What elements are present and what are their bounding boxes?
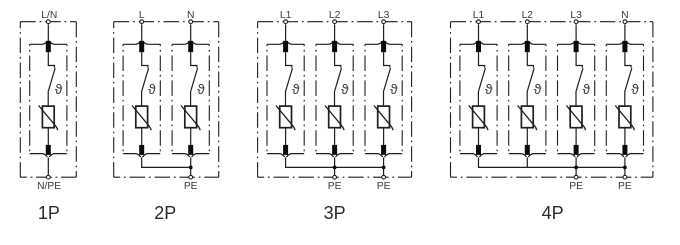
wire + thermal disconnector switch, pole L1: [286, 52, 293, 106]
terminal L1: [477, 20, 481, 24]
wire: bottom contact to PE terminal, pole N: [624, 157, 626, 177]
svg-text:L3: L3: [378, 10, 390, 21]
svg-text:1P: 1P: [38, 203, 60, 223]
bottom contact blade (black), pole N: [622, 145, 627, 155]
top contact blade (black), pole L1: [476, 41, 481, 52]
wire: varistor to bottom contact, pole N: [624, 128, 626, 146]
varistor body, pole L: [136, 106, 148, 128]
top plug-in contact jaws, pole L1: [267, 41, 304, 44]
SPD device outer enclosure box: [114, 22, 219, 178]
module box left side, pole L3: [557, 44, 559, 153]
bottom contact blade (black), pole L: [139, 145, 144, 155]
terminal PE (3P left): [333, 175, 337, 179]
wire + thermal disconnector switch, pole L2: [335, 52, 342, 106]
varistor body, pole L1: [280, 106, 292, 128]
svg-text:ϑ: ϑ: [197, 81, 205, 97]
junction node at pole L3: [382, 166, 386, 170]
wire: varistor to bottom contact, pole L/N: [47, 128, 49, 146]
junction node at pole N: [623, 166, 627, 170]
bottom contact blade (black), pole L/N: [46, 145, 51, 155]
SPD device outer enclosure box: [258, 22, 412, 178]
wire: bottom contact to PE terminal, pole L3: [383, 157, 385, 177]
wire: top terminal to plug contact, pole L2: [334, 24, 336, 41]
top contact blade (black), pole L2: [525, 41, 530, 52]
svg-text:ϑ: ϑ: [341, 81, 349, 97]
junction node at pole N: [189, 166, 193, 170]
svg-text:L3: L3: [570, 10, 582, 21]
terminal N/PE: [46, 175, 50, 179]
wire + thermal disconnector switch, pole L3: [384, 52, 391, 106]
varistor body, pole L3: [378, 106, 390, 128]
svg-text:2P: 2P: [154, 203, 176, 223]
svg-text:L1: L1: [280, 10, 292, 21]
wire: bottom contact down to PE bus, pole L1: [285, 157, 287, 167]
top contact blade (black), pole L: [139, 41, 144, 52]
varistor diagonal stroke, pole L1: [469, 106, 488, 131]
svg-text:L/N: L/N: [41, 10, 57, 21]
varistor diagonal stroke, pole L2: [518, 106, 537, 131]
terminal L2: [333, 20, 337, 24]
top contact blade (black), pole L/N: [46, 41, 51, 52]
PE bus wire: [285, 166, 384, 168]
wire: top terminal to plug contact, pole L/N: [47, 24, 49, 41]
svg-text:4P: 4P: [542, 203, 564, 223]
svg-text:L: L: [139, 10, 145, 21]
varistor diagonal stroke, pole N: [181, 106, 200, 131]
wire + thermal disconnector switch, pole L2: [527, 52, 534, 106]
bottom plug-in contact jaws, pole L1: [267, 154, 304, 157]
wire: varistor to bottom contact, pole L3: [383, 128, 385, 146]
wire: bottom contact down to PE bus, pole L2: [526, 157, 528, 167]
bottom plug-in contact jaws, pole L/N: [30, 154, 67, 157]
svg-text:ϑ: ϑ: [631, 81, 639, 97]
varistor body, pole N: [185, 106, 197, 128]
wire: top terminal to plug contact, pole L1: [478, 24, 480, 41]
bottom contact blade (black), pole N: [188, 145, 193, 155]
module box left side, pole L3: [364, 44, 366, 153]
module box left side, pole L1: [266, 44, 268, 153]
bottom contact blade (black), pole L1: [283, 145, 288, 155]
bottom contact blade (black), pole L2: [332, 145, 337, 155]
varistor diagonal stroke, pole L1: [276, 106, 295, 131]
module box left side, pole L2: [315, 44, 317, 153]
terminal N: [623, 20, 627, 24]
module box right side, pole L2: [352, 44, 354, 153]
wire + thermal disconnector switch, pole N: [625, 52, 632, 106]
top contact blade (black), pole N: [622, 41, 627, 52]
PE bus wire: [478, 166, 625, 168]
bottom plug-in contact jaws, pole L1: [460, 154, 497, 157]
svg-text:PE: PE: [618, 181, 632, 192]
top plug-in contact jaws, pole L3: [558, 41, 595, 44]
svg-text:ϑ: ϑ: [534, 81, 542, 97]
top plug-in contact jaws, pole L3: [365, 41, 402, 44]
junction node at pole L3: [574, 166, 578, 170]
module box right side, pole L3: [401, 44, 403, 153]
module box right side, pole L/N: [66, 44, 68, 153]
bottom contact blade (black), pole L2: [525, 145, 530, 155]
terminal PE (3P right): [382, 175, 386, 179]
wire: bottom contact down to PE bus, pole L: [141, 157, 143, 167]
svg-text:ϑ: ϑ: [485, 81, 493, 97]
terminal PE (4P left): [574, 175, 578, 179]
SPD device outer enclosure box: [20, 22, 76, 178]
wire: bottom contact to PE terminal, pole L/N: [47, 157, 49, 177]
wire + thermal disconnector switch, pole L/N: [48, 52, 55, 106]
module box right side, pole L1: [303, 44, 305, 153]
varistor body, pole L/N: [42, 106, 54, 128]
wire: bottom contact down to PE bus, pole L1: [478, 157, 480, 167]
terminal PE (2P): [189, 175, 193, 179]
module box right side, pole L3: [594, 44, 596, 153]
bottom plug-in contact jaws, pole L2: [509, 154, 546, 157]
junction node at pole L2: [333, 166, 337, 170]
top contact blade (black), pole L3: [574, 41, 579, 52]
bottom plug-in contact jaws, pole N: [606, 154, 643, 157]
wire: bottom contact to PE terminal, pole L2: [334, 157, 336, 177]
svg-text:N/PE: N/PE: [37, 181, 61, 192]
svg-text:N: N: [187, 10, 194, 21]
terminal N: [189, 20, 193, 24]
module box right side, pole N: [208, 44, 210, 153]
top plug-in contact jaws, pole L: [123, 41, 160, 44]
svg-text:L2: L2: [522, 10, 534, 21]
varistor body, pole L2: [521, 106, 533, 128]
top contact blade (black), pole N: [188, 41, 193, 52]
svg-text:PE: PE: [569, 181, 583, 192]
svg-text:N: N: [621, 10, 628, 21]
top contact blade (black), pole L2: [332, 41, 337, 52]
top plug-in contact jaws, pole N: [172, 41, 209, 44]
svg-text:3P: 3P: [324, 203, 346, 223]
svg-text:PE: PE: [377, 181, 391, 192]
module box left side, pole N: [605, 44, 607, 153]
wire: top terminal to plug contact, pole L2: [526, 24, 528, 41]
module box left side, pole L1: [459, 44, 461, 153]
varistor body, pole L1: [473, 106, 485, 128]
top plug-in contact jaws, pole N: [606, 41, 643, 44]
top plug-in contact jaws, pole L1: [460, 41, 497, 44]
varistor body, pole N: [619, 106, 631, 128]
wire: top terminal to plug contact, pole N: [190, 24, 192, 41]
top plug-in contact jaws, pole L2: [316, 41, 353, 44]
wire: top terminal to plug contact, pole L3: [575, 24, 577, 41]
terminal L3: [574, 20, 578, 24]
bottom contact blade (black), pole L3: [574, 145, 579, 155]
bottom plug-in contact jaws, pole L: [123, 154, 160, 157]
module box right side, pole L: [159, 44, 161, 153]
svg-text:ϑ: ϑ: [55, 81, 63, 97]
wire: top terminal to plug contact, pole N: [624, 24, 626, 41]
svg-text:ϑ: ϑ: [390, 81, 398, 97]
terminal L1: [284, 20, 288, 24]
svg-text:PE: PE: [184, 181, 198, 192]
svg-text:ϑ: ϑ: [292, 81, 300, 97]
wire: varistor to bottom contact, pole L1: [285, 128, 287, 146]
wire + thermal disconnector switch, pole L: [142, 52, 149, 106]
wire: bottom contact to PE terminal, pole N: [190, 157, 192, 177]
wire: top terminal to plug contact, pole L1: [285, 24, 287, 41]
varistor body, pole L3: [570, 106, 582, 128]
terminal PE (4P right): [623, 175, 627, 179]
varistor diagonal stroke, pole L/N: [39, 106, 58, 131]
bottom plug-in contact jaws, pole N: [172, 154, 209, 157]
top plug-in contact jaws, pole L2: [509, 41, 546, 44]
wire: varistor to bottom contact, pole L3: [575, 128, 577, 146]
varistor diagonal stroke, pole L2: [325, 106, 344, 131]
svg-text:ϑ: ϑ: [583, 81, 591, 97]
module box right side, pole L2: [545, 44, 547, 153]
module box right side, pole N: [643, 44, 645, 153]
varistor diagonal stroke, pole L3: [374, 106, 393, 131]
top contact blade (black), pole L1: [283, 41, 288, 52]
wire: varistor to bottom contact, pole N: [190, 128, 192, 146]
wire: top terminal to plug contact, pole L: [141, 24, 143, 41]
bottom plug-in contact jaws, pole L2: [316, 154, 353, 157]
wire + thermal disconnector switch, pole L1: [478, 52, 485, 106]
module box left side, pole L/N: [29, 44, 31, 153]
bottom contact blade (black), pole L3: [381, 145, 386, 155]
svg-text:ϑ: ϑ: [148, 81, 156, 97]
module box right side, pole L1: [496, 44, 498, 153]
varistor diagonal stroke, pole L3: [566, 106, 585, 131]
varistor body, pole L2: [329, 106, 341, 128]
terminal L/N: [46, 20, 50, 24]
wire + thermal disconnector switch, pole N: [191, 52, 198, 106]
wire: varistor to bottom contact, pole L2: [334, 128, 336, 146]
SPD device outer enclosure box: [451, 22, 653, 178]
wire + thermal disconnector switch, pole L3: [576, 52, 583, 106]
terminal L3: [382, 20, 386, 24]
module box left side, pole N: [171, 44, 173, 153]
wire: varistor to bottom contact, pole L1: [478, 128, 480, 146]
bottom plug-in contact jaws, pole L3: [365, 154, 402, 157]
wire: bottom contact to PE terminal, pole L3: [575, 157, 577, 177]
svg-text:L2: L2: [329, 10, 341, 21]
PE bus wire: [141, 166, 191, 168]
top plug-in contact jaws, pole L/N: [30, 41, 67, 44]
module box left side, pole L2: [508, 44, 510, 153]
wire: varistor to bottom contact, pole L: [141, 128, 143, 146]
top contact blade (black), pole L3: [381, 41, 386, 52]
module box left side, pole L: [122, 44, 124, 153]
bottom contact blade (black), pole L1: [476, 145, 481, 155]
varistor diagonal stroke, pole N: [615, 106, 634, 131]
terminal L: [140, 20, 144, 24]
svg-text:PE: PE: [328, 181, 342, 192]
bottom plug-in contact jaws, pole L3: [558, 154, 595, 157]
terminal L2: [525, 20, 529, 24]
wire: varistor to bottom contact, pole L2: [526, 128, 528, 146]
svg-text:L1: L1: [473, 10, 485, 21]
varistor diagonal stroke, pole L: [132, 106, 151, 131]
wire: top terminal to plug contact, pole L3: [383, 24, 385, 41]
